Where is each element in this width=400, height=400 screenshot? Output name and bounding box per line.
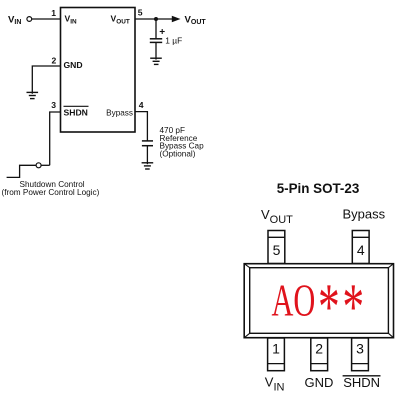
polarity plus sign for C1 — [160, 29, 165, 34]
wire pin 5 (VOUT) to arrow — [135, 18, 173, 20]
terminal circle shutdown control — [36, 163, 41, 168]
pin 4 lead (package) — [352, 231, 369, 264]
capacitor C2 (470 pF) plates — [142, 141, 153, 146]
svg-text:VIN: VIN — [265, 374, 285, 393]
svg-text:GND: GND — [64, 60, 83, 70]
pin 2 lead (package) — [311, 338, 328, 371]
capacitor C1 (1 uF) plates — [150, 39, 162, 43]
svg-text:4: 4 — [139, 100, 144, 110]
wire C1 to ground — [155, 42, 157, 59]
wire control terminal right segment — [41, 164, 50, 166]
svg-text:3: 3 — [51, 100, 56, 110]
svg-text:2: 2 — [52, 55, 57, 65]
svg-text:1: 1 — [51, 8, 56, 18]
package body inner outline — [250, 268, 389, 334]
svg-text:VOUT: VOUT — [185, 14, 207, 26]
ground symbol at GND pin — [27, 92, 39, 98]
pin 1 lead (package) — [268, 338, 285, 371]
svg-text:VOUT: VOUT — [261, 207, 293, 226]
svg-text:2: 2 — [315, 341, 323, 357]
svg-text:Bypass: Bypass — [106, 108, 133, 117]
wire pin 4 (Bypass) down to capacitor C2 — [135, 112, 147, 141]
IC block U1 — [61, 8, 136, 133]
svg-text:3: 3 — [356, 341, 364, 357]
svg-text:GND: GND — [305, 375, 334, 390]
svg-text:5-Pin SOT-23: 5-Pin SOT-23 — [277, 181, 360, 196]
pin label SHDN (inside U1) — [64, 106, 89, 117]
wire C2 to ground — [146, 146, 148, 165]
svg-text:Bypass: Bypass — [343, 207, 386, 222]
svg-text:5: 5 — [273, 242, 281, 258]
svg-text:SHDN: SHDN — [64, 107, 88, 117]
wire VOUT node down to capacitor C1 — [155, 19, 157, 38]
svg-text:VIN: VIN — [8, 14, 21, 26]
value label 470 pF Reference Bypass Cap (Optional) — [160, 126, 205, 158]
ground symbol at C2 — [142, 163, 154, 169]
terminal circle VIN input — [27, 17, 32, 22]
pin 5 lead (package) — [268, 231, 285, 264]
svg-text:(from Power Control Logic): (from Power Control Logic) — [2, 188, 100, 197]
svg-text:SHDN: SHDN — [343, 375, 380, 390]
wire shutdown control left lead — [7, 165, 36, 177]
svg-text:1 µF: 1 µF — [165, 35, 182, 45]
wire pin 2 (GND) — [32, 66, 60, 94]
wire pin 3 (SHDN) down to control terminal — [50, 112, 61, 165]
package body SOT-23 outer outline — [244, 264, 393, 338]
ground symbol at C1 — [150, 58, 162, 64]
wire pin 1 (VIN) — [32, 18, 61, 20]
svg-text:4: 4 — [357, 242, 365, 258]
svg-text:VOUT: VOUT — [111, 14, 130, 26]
svg-text:5: 5 — [138, 7, 143, 17]
svg-text:VIN: VIN — [65, 14, 78, 26]
svg-text:1: 1 — [272, 341, 280, 357]
svg-text:(Optional): (Optional) — [160, 149, 196, 158]
pin 3 lead (package) — [352, 338, 369, 371]
package body corner bevels — [244, 264, 393, 338]
junction dot at VOUT node — [154, 17, 158, 21]
label SHDN (package bottom pin 3) — [343, 375, 381, 390]
arrowhead VOUT — [172, 16, 181, 23]
